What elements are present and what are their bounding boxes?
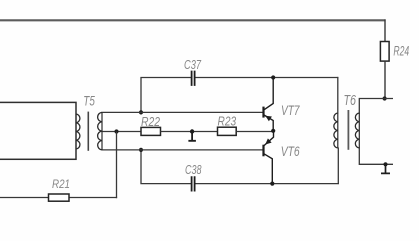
wire: VT6 base rail	[102, 149, 264, 151]
transistor VT7 emitter arrow	[265, 116, 272, 122]
transformer T6 primary winding	[334, 113, 338, 148]
wire: R23 to emitter junction	[236, 131, 273, 133]
capacitor C38	[192, 176, 195, 191]
node: junction R24 / T6 secondary top	[383, 96, 387, 100]
transistor VT6 collector	[264, 154, 272, 184]
node: junction center tap / R21 feed	[114, 129, 118, 133]
wire: T6 primary top lead	[337, 77, 339, 114]
node: junction C38 rail / VT6 base rail	[139, 148, 143, 152]
node: junction at ground (T6 secondary bottom)	[383, 162, 387, 166]
transistor VT7 emitter	[264, 115, 273, 131]
node: junction of VT7/VT6 emitters	[271, 129, 275, 133]
svg-text:R22: R22	[141, 114, 161, 129]
transistor VT7 base bar	[262, 107, 264, 118]
ground (output side)	[381, 164, 390, 173]
transformer T5 secondary winding	[98, 112, 102, 149]
wire: emitter rail (center tap)	[102, 131, 142, 133]
svg-text:T6: T6	[344, 93, 357, 109]
resistor R23	[218, 127, 237, 135]
capacitor C37	[192, 71, 195, 86]
wire: R22 to R23	[161, 131, 218, 133]
svg-text:R23: R23	[218, 113, 237, 128]
svg-text:R21: R21	[52, 178, 70, 191]
svg-text:T5: T5	[83, 94, 95, 109]
svg-text:VT6: VT6	[281, 144, 300, 159]
transformer T6 core	[347, 110, 349, 150]
wire: T6 secondary top lead	[359, 99, 393, 114]
resistor R24	[380, 42, 389, 62]
wire: R21 net vertical	[116, 132, 118, 199]
svg-text:VT7: VT7	[281, 103, 300, 118]
wire: T6 primary bottom lead	[337, 148, 339, 185]
svg-text:C38: C38	[185, 162, 202, 177]
svg-text:C37: C37	[184, 57, 201, 72]
wire: VT7 base rail	[102, 111, 264, 113]
transformer T5 primary winding	[76, 114, 80, 149]
node: junction VT6 collector / C38 rail	[270, 182, 274, 186]
node: junction VT7 collector / C37 rail	[271, 75, 275, 79]
transistor VT7 collector	[264, 78, 273, 110]
transistor VT6 emitter arrow	[265, 138, 271, 144]
wire: R21 rail	[0, 197, 117, 199]
generator block (left box)	[0, 102, 76, 159]
wire: bus down to R24	[384, 19, 386, 42]
transistor VT6 emitter	[264, 131, 274, 146]
wire: C38 net (lower collector rail)	[141, 149, 339, 183]
wire: C37 net (upper collector rail)	[141, 78, 338, 113]
svg-text:R24: R24	[393, 43, 409, 58]
node: junction at middle ground	[190, 129, 194, 133]
node: junction C37 rail / VT7 base rail	[139, 110, 143, 114]
resistor R21	[49, 194, 70, 201]
wire: top supply bus	[0, 19, 386, 21]
resistor R22	[141, 127, 161, 135]
wire: R24 to node	[384, 61, 386, 99]
transformer T6 secondary winding	[355, 113, 359, 148]
ground (emitter rail)	[188, 132, 196, 141]
transistor VT6 base bar	[262, 145, 264, 157]
transformer T5 core	[87, 112, 89, 151]
wire: T6 secondary bottom lead	[359, 148, 393, 165]
